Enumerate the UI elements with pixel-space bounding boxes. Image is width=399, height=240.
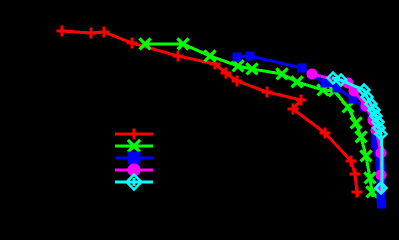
- legend entry 3: blue line sample: [115, 152, 153, 165]
- legend entry 2: green line sample: [115, 140, 153, 152]
- legend entry 5: cyan line sample: [115, 175, 153, 190]
- cyan series line: [333, 78, 382, 193]
- red series plus markers: [57, 26, 363, 198]
- magenta series circle markers: [307, 69, 387, 194]
- red series line: [62, 31, 358, 196]
- cyan series diamond markers: [328, 73, 387, 194]
- green series line: [145, 44, 373, 197]
- cyan diamond center dots: [332, 77, 382, 136]
- magenta series line: [312, 74, 381, 188]
- green series cross markers: [140, 39, 378, 198]
- blue series square markers: [233, 52, 387, 209]
- legend entry 1: red line sample: [115, 129, 153, 140]
- blue series line: [237, 56, 382, 203]
- legend entry 4: magenta line sample: [115, 164, 153, 177]
